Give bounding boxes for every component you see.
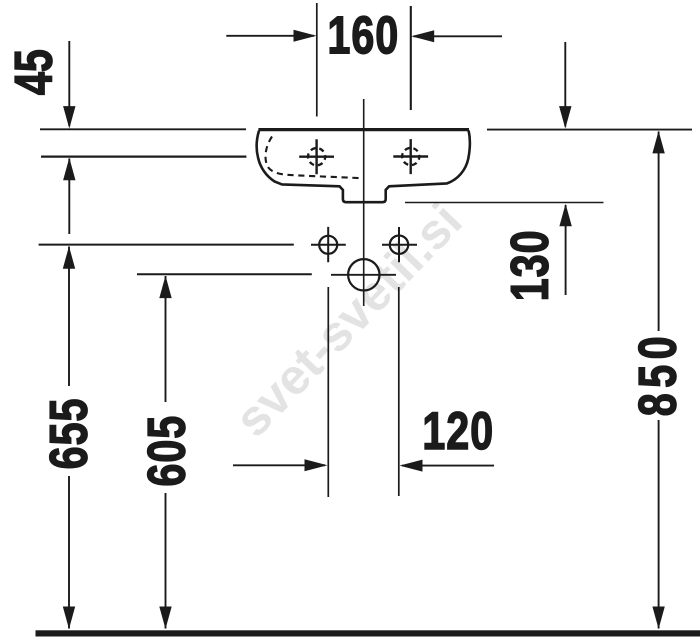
faucet hole left dashed circle — [308, 148, 325, 165]
dimension 45 lower arrow tail — [68, 159, 70, 235]
extension line left of 120 — [327, 287, 329, 497]
faucet hole left crosshair — [299, 139, 334, 174]
dimension 130 upper arrow line — [564, 42, 566, 127]
arrowhead 130 up — [559, 204, 571, 227]
dimension line 120 left part — [233, 464, 325, 466]
arrowhead 45 down — [63, 106, 75, 129]
floor line — [36, 630, 700, 636]
fixing hole right circle — [390, 236, 408, 254]
fixing hole left circle — [319, 236, 337, 254]
label 45 — [15, 50, 52, 94]
extension line right of 160 — [410, 6, 412, 110]
washbasin rim top edge — [258, 128, 469, 131]
drain hole crosshair horizontal — [331, 274, 396, 276]
arrowhead 605 down — [159, 607, 171, 630]
label 605 — [148, 417, 186, 485]
extension line left of 160 — [316, 3, 318, 117]
arrowhead 655 up — [63, 246, 75, 269]
drain hole circle — [348, 259, 379, 290]
rim reference line left — [40, 128, 246, 130]
arrowhead 655 down — [63, 607, 75, 630]
dimension 130 lower arrow tail — [565, 205, 567, 295]
rim reference line right — [487, 129, 692, 131]
label 160 — [330, 16, 397, 54]
dimension 605 line — [165, 276, 167, 629]
label watermark svet-svetil.si — [231, 201, 462, 439]
vertical center line — [363, 99, 365, 306]
dimension 850 line — [658, 132, 660, 629]
label 850 — [639, 338, 677, 415]
label 120 — [425, 412, 492, 450]
arrowhead 850 up — [652, 131, 664, 154]
label 130 — [511, 232, 549, 299]
extension line right of 120 — [398, 287, 400, 496]
arrowhead 160 right (points left) — [411, 30, 434, 42]
washbasin inner bowl hidden edge (dashed) — [265, 137, 362, 179]
drain-center reference line (605) — [137, 273, 312, 275]
arrowhead 605 up — [159, 276, 171, 299]
dimension line 160 left part — [226, 35, 314, 37]
arrowhead 120 left (points right) — [305, 459, 328, 471]
fixing hole left crosshair — [311, 227, 346, 262]
dimension 655 line — [68, 247, 70, 629]
dimension line 120 right part — [402, 465, 494, 467]
faucet hole right dashed circle — [402, 148, 419, 165]
faucet-hole reference line left — [41, 156, 246, 158]
arrowhead 45 up — [63, 158, 75, 181]
fixing hole right crosshair — [382, 227, 417, 262]
arrowhead 130 down — [559, 106, 571, 129]
washbasin outline — [257, 131, 470, 203]
faucet hole right crosshair — [393, 139, 428, 174]
basin bottom reference line right (130) — [405, 202, 604, 204]
label 655 — [50, 400, 88, 468]
dimension 45 upper line — [68, 41, 70, 126]
arrowhead 120 right (points left) — [400, 460, 423, 472]
arrowhead 160 left (points right) — [294, 30, 317, 42]
dimension line 160 right part — [414, 35, 503, 37]
fixing-holes reference line left — [39, 244, 294, 246]
arrowhead 850 down — [652, 607, 664, 630]
